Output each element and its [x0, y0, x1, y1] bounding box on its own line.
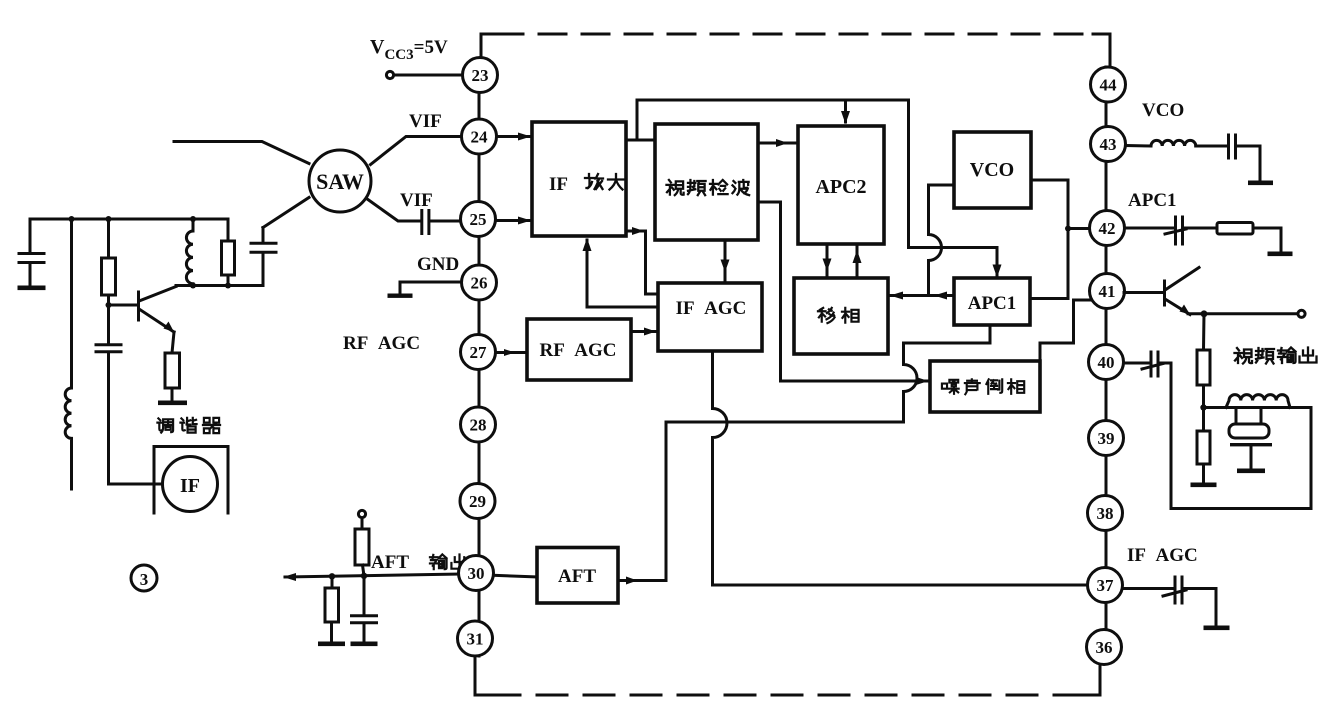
inductor L4 trap coil [1226, 395, 1290, 408]
terminal video out [1298, 310, 1305, 317]
node AFT junction dots [329, 573, 335, 579]
wire video output line [1188, 312, 1298, 315]
wire to ground [1253, 228, 1281, 251]
arrow on that wire [632, 227, 644, 235]
resistor R1 bias [102, 219, 116, 305]
wire video det bottom to IF AGC [724, 240, 727, 281]
wire video det to noise inverter (long) [758, 202, 927, 381]
wire IF AGC bottom to pin 37 (with hop) [713, 351, 1090, 585]
node A junction dots on rail [69, 216, 75, 222]
inductor L2 tank [186, 219, 193, 286]
svg-text:29: 29 [469, 492, 486, 511]
pin 38 [1088, 496, 1123, 531]
wire AFT out to tuner [285, 574, 460, 577]
svg-text:24: 24 [471, 128, 489, 147]
svg-text:30: 30 [468, 564, 485, 583]
wire pin24 to IF amp [497, 135, 529, 138]
resistor R5 [325, 576, 339, 641]
wire pin27 to RF AGC [495, 351, 527, 354]
block U10 AFT [537, 548, 618, 604]
wire RF AGC to IF AGC [631, 330, 656, 333]
pin 30 [459, 556, 494, 591]
svg-text:41: 41 [1099, 282, 1116, 301]
pin 24 [462, 119, 497, 154]
resistor R8 [1197, 408, 1210, 483]
ground (C6) [1248, 181, 1273, 186]
arrow into APC2 [776, 139, 788, 147]
svg-text:AFT: AFT [558, 566, 596, 587]
block U4 VCO [954, 132, 1031, 208]
wire SAW to pin 24 [371, 137, 462, 165]
wire pin43 [1126, 144, 1151, 148]
capacitor C3 coupling to SAW [251, 198, 309, 286]
transistor Q2 emitter follower [1163, 281, 1166, 305]
pin 40 [1089, 345, 1124, 380]
svg-text:27: 27 [470, 343, 488, 362]
wire AFT right stub [618, 579, 648, 582]
wire APC1 right to pin 42 net [1031, 180, 1089, 299]
ground (C1) [18, 286, 46, 291]
svg-text:VCO: VCO [1142, 100, 1184, 121]
pin 25 [461, 202, 496, 237]
arrow on pin27 wire [504, 349, 515, 356]
node emitter junction [1201, 310, 1208, 317]
svg-text:36: 36 [1096, 638, 1113, 657]
label 调谐器 tuner [157, 418, 173, 432]
block U6 APC1 [954, 278, 1030, 325]
wire to ground [1184, 589, 1217, 626]
svg-text:IF: IF [549, 174, 568, 195]
arrow toward AFT path [626, 577, 638, 585]
wire dashed bottom boundary [475, 657, 490, 695]
ground (R6) [1268, 252, 1293, 257]
ceramic resonator X1 [1229, 408, 1269, 439]
pin 36 [1087, 630, 1122, 665]
emitter arrow Q2 [1180, 305, 1191, 315]
svg-text:VCO: VCO [970, 159, 1014, 181]
inductor L3 VCO coil [1151, 140, 1196, 146]
wire IF amp to IF AGC [626, 231, 656, 294]
ground (X1) [1250, 447, 1253, 469]
svg-text:39: 39 [1098, 429, 1115, 448]
svg-text:40: 40 [1098, 353, 1115, 372]
wire noise inverter to pin 41 [1040, 300, 1091, 360]
arrow into IF AGC left [644, 328, 656, 336]
wire right pin column [1105, 67, 1108, 664]
svg-text:43: 43 [1100, 135, 1117, 154]
pin 41 [1090, 274, 1125, 309]
pin 28 [461, 407, 496, 442]
pin 23 [463, 58, 498, 93]
pin 44 [1091, 67, 1126, 102]
svg-text:RF AGC: RF AGC [539, 340, 616, 361]
block U8 RF AGC [527, 319, 631, 380]
svg-text:IF AGC: IF AGC [1127, 545, 1198, 566]
block U2 video detector 视频检波 [655, 124, 758, 240]
block U7 IF AGC [658, 283, 762, 351]
wire pin41 to Q2 base [1124, 291, 1163, 294]
svg-text:VIF: VIF [400, 190, 433, 211]
terminal +V [358, 510, 365, 517]
svg-text:26: 26 [471, 274, 488, 293]
resistor R4 pullup [355, 518, 369, 576]
arrow up into APC2 [853, 250, 862, 263]
wire APC2 / phase shifter pair [827, 244, 857, 277]
wire APC1 bottom to AFT (long, with hops) [646, 325, 990, 581]
block U5 phase shifter 移相 [794, 278, 888, 354]
svg-text:IF AGC: IF AGC [676, 298, 747, 319]
node junction [1200, 404, 1206, 410]
svg-text:31: 31 [467, 630, 484, 649]
resistor R6 [1217, 223, 1253, 235]
arrow into noise inverter [916, 377, 929, 385]
arrow up into IF amp bottom [583, 238, 592, 251]
wire [1184, 227, 1217, 230]
tuner IF oscillator circle [163, 457, 218, 512]
node B base junction [106, 302, 112, 308]
pin 39 [1089, 421, 1124, 456]
label 视频输出 video output [1235, 348, 1253, 364]
svg-text:38: 38 [1097, 504, 1114, 523]
wire feedback top rail [637, 100, 996, 248]
arrow into IF amp [518, 217, 531, 225]
svg-text:37: 37 [1097, 576, 1115, 595]
SAW filter [309, 150, 371, 212]
wire to ground [1237, 146, 1260, 180]
wire [1196, 145, 1227, 148]
capacitor C6 [1229, 135, 1236, 158]
wire pin40 [1124, 362, 1149, 365]
arrow down into phase shifter [823, 259, 832, 272]
pin 27 [461, 335, 496, 370]
wire dashed top boundary [481, 34, 496, 58]
pin 26 [462, 265, 497, 300]
svg-text:APC2: APC2 [815, 176, 866, 198]
capacitor C2 [96, 305, 121, 484]
capacitor C4 VIF coupling [422, 211, 460, 234]
transistor Q1 [137, 292, 140, 320]
pin 43 [1091, 127, 1126, 162]
ground (C5) [351, 642, 378, 647]
wire APC1 to phase shifter [890, 294, 954, 297]
pin 37 [1088, 568, 1123, 603]
wire [1159, 362, 1171, 365]
capacitor C1 bypass [19, 219, 44, 285]
svg-text:28: 28 [470, 416, 487, 435]
wire IF AGC output to IF amp gain [587, 240, 658, 307]
node dot pin42 net [1065, 226, 1071, 232]
svg-text:44: 44 [1100, 76, 1118, 95]
figure number 3 [131, 565, 157, 591]
arrow into IF AGC top [721, 260, 730, 273]
wire to tuner IF [109, 483, 164, 486]
wire pin25 to IF amp [496, 219, 529, 222]
ground (R3) [158, 401, 187, 406]
wire left pin column [478, 58, 481, 656]
wire base [109, 304, 138, 307]
svg-text:23: 23 [472, 66, 489, 85]
block U9 noise inverter 噪声倒相 [930, 361, 1040, 412]
inductor L1 choke [65, 219, 71, 489]
wire collector rail [176, 284, 263, 287]
resistor R3 emitter [165, 332, 180, 400]
svg-text:VIF: VIF [409, 111, 442, 132]
svg-text:42: 42 [1099, 219, 1116, 238]
svg-text:3: 3 [140, 570, 149, 589]
arrow into APC2 top [844, 100, 847, 122]
capacitor C10 [1163, 577, 1186, 603]
pin 31 [458, 621, 493, 656]
ground (pin26) [388, 294, 413, 298]
wire pin30 to AFT [460, 574, 537, 577]
svg-text:25: 25 [470, 210, 487, 229]
resistor R2 tank damping [222, 219, 235, 286]
wire takeoff frame [1171, 363, 1311, 509]
wire pin42 [1125, 227, 1173, 230]
terminal VCC [386, 71, 393, 78]
wire supply rail top [30, 218, 228, 221]
wire IF amp to video det [626, 139, 655, 142]
block U3 APC2 [798, 126, 884, 244]
svg-text:APC1: APC1 [1128, 190, 1177, 211]
capacitor plate (X1) [1230, 443, 1272, 446]
arrow into phase shifter [890, 292, 903, 300]
svg-text:AFT: AFT [371, 552, 409, 573]
svg-text:IF: IF [180, 475, 200, 497]
resistor R7 [1197, 314, 1210, 408]
pin 42 [1090, 211, 1125, 246]
capacitor C5 [352, 576, 377, 641]
wire pin26 ground lead [400, 282, 461, 294]
arrow left [283, 573, 296, 581]
svg-text:GND: GND [417, 254, 459, 275]
wire SAW to C4 [367, 199, 421, 222]
svg-text:SAW: SAW [316, 169, 364, 194]
wire VCO left to APC1 line (with hop) [929, 185, 955, 296]
arrow mid wire [934, 292, 947, 300]
tuner box [154, 447, 228, 514]
wire pin37 [1123, 587, 1173, 590]
wire VCC to pin 23 [394, 74, 461, 77]
arrow into APC1 top [996, 248, 999, 277]
ground (C10) [1204, 626, 1230, 631]
svg-text:RF AGC: RF AGC [343, 333, 420, 354]
ground (R5) [318, 642, 345, 647]
wire SAW input feed [174, 142, 309, 164]
block U1 IF amplifier [532, 122, 626, 236]
pin 29 [460, 484, 495, 519]
wire video det to APC2 [758, 142, 796, 145]
capacitor C7 [1165, 217, 1186, 244]
capacitor C9 [1142, 352, 1163, 376]
emitter arrow Q1 [164, 322, 175, 333]
svg-text:APC1: APC1 [968, 293, 1017, 314]
wire trap rail [1204, 406, 1312, 409]
arrow into IF amp [518, 133, 531, 141]
ground (R8) [1191, 483, 1217, 488]
